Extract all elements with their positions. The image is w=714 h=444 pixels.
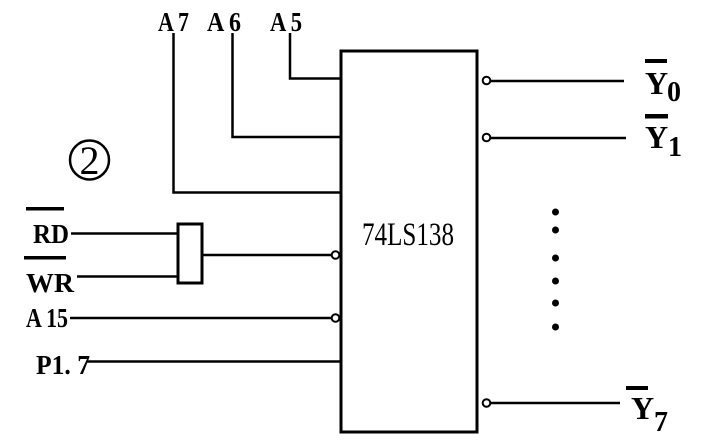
wire A5 [290, 33, 341, 79]
IC U1 value label 74LS138 [362, 217, 454, 253]
svg-text:Y: Y [645, 65, 668, 101]
gate G1 (RD/WR combiner block) [178, 224, 202, 283]
wire A6 [233, 33, 342, 137]
active-low bubble at U1 pin (A15) [332, 314, 340, 322]
svg-text:0: 0 [667, 77, 681, 108]
net label Y7 (overbar) [626, 386, 668, 438]
net label WR (active low, overbar) [24, 256, 75, 298]
net label A15 [26, 303, 68, 333]
svg-text:2: 2 [80, 138, 100, 183]
wire A7 [174, 33, 342, 193]
ellipsis dots (outputs Y2..Y6) [552, 209, 559, 331]
wire P1.7 to U1 [87, 360, 341, 363]
svg-text:A 15: A 15 [26, 303, 68, 333]
wire G1 output to U1 enable [203, 254, 331, 257]
wire output Y1 [491, 137, 626, 140]
figure number 2 (circled) [70, 138, 109, 183]
wire RD to gate [71, 232, 178, 235]
svg-text:Y: Y [645, 119, 668, 155]
net label RD (active low, overbar) [26, 207, 69, 249]
svg-text:A 7: A 7 [158, 7, 189, 37]
wire A15 to U1 [70, 317, 331, 320]
svg-text:RD: RD [33, 219, 69, 249]
active-low bubble at U1 output Y1 [483, 134, 491, 142]
wire WR to gate [77, 275, 178, 278]
net label A7 [158, 7, 189, 37]
svg-text:A 6: A 6 [207, 7, 241, 37]
net label Y0 (overbar) [645, 59, 681, 108]
net label P1.7 [36, 350, 90, 380]
svg-text:P1. 7: P1. 7 [36, 350, 90, 380]
IC U1 74LS138 body [341, 51, 477, 432]
svg-text:Y: Y [631, 390, 654, 426]
svg-text:74LS138: 74LS138 [362, 217, 454, 253]
svg-text:A 5: A 5 [270, 7, 302, 37]
svg-text:WR: WR [26, 268, 75, 298]
svg-text:7: 7 [654, 407, 668, 438]
net label Y1 (overbar) [645, 114, 682, 163]
active-low bubble at U1 output Y7 [483, 399, 491, 407]
net label A5 [270, 7, 302, 37]
wire output Y7 [491, 402, 620, 405]
svg-text:1: 1 [668, 132, 682, 163]
net label A6 [207, 7, 241, 37]
wire output Y0 [491, 80, 624, 83]
active-low bubble at U1 enable pin (G1 output) [332, 251, 340, 259]
active-low bubble at U1 output Y0 [483, 77, 491, 85]
